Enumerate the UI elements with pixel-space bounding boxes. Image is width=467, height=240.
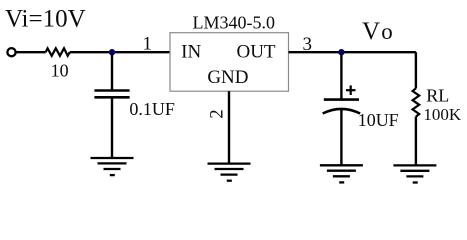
ground G1 [91,158,134,175]
svg-text:IN: IN [181,42,201,63]
ground G3 [320,165,363,182]
pin 2 label [207,109,227,118]
op-amp U1 LM340-5.0 regulator box [170,33,289,91]
wire junction down to C2 [340,52,342,99]
pin 3 label [303,34,313,55]
svg-text:Vo: Vo [362,18,393,45]
node Vo label [362,18,393,45]
capacitor C2 10UF polarized [323,100,360,114]
wire corner down to RL [415,52,417,88]
svg-text:OUT: OUT [236,42,275,63]
svg-text:10UF: 10UF [358,110,399,130]
svg-text:RL: RL [426,85,449,105]
wire input to resistor [16,51,46,53]
wire C2 to ground [340,109,342,165]
svg-text:GND: GND [207,67,248,88]
pin name OUT [236,42,275,63]
pin name IN [181,42,201,63]
wire OUT pin to corner [289,51,416,53]
svg-text:0.1UF: 0.1UF [129,99,175,119]
svg-text:2: 2 [207,109,227,118]
wire RL to ground [415,117,417,166]
ground G4 [393,165,436,182]
svg-text:Vi=10V: Vi=10V [5,6,86,33]
wire C1 to ground [111,97,113,158]
value label 0.1UF [129,99,175,119]
pin name GND [207,67,248,88]
wire resistor to IN pin [70,51,170,53]
capacitor C1 0.1UF [94,91,129,98]
node junction dot output [338,49,344,55]
polarity plus sign [346,85,356,95]
label LM340-5.0 [193,12,276,32]
svg-text:10: 10 [51,61,69,81]
pin 1 label [143,34,153,55]
label RL [426,85,449,105]
input terminal [7,48,15,56]
ground G2 [208,164,251,181]
wire GND pin to ground [228,91,230,163]
svg-text:LM340-5.0: LM340-5.0 [193,12,276,32]
wire junction down to C1 [111,52,113,90]
resistor R 10 [46,48,70,56]
svg-text:100K: 100K [423,105,462,124]
node junction dot input [109,49,115,55]
value label 10UF [358,110,399,130]
svg-text:1: 1 [143,34,153,55]
resistor RL zigzag [413,88,420,116]
node Vi label [5,6,86,33]
value label 10 [51,61,69,81]
label 100K [423,105,462,124]
